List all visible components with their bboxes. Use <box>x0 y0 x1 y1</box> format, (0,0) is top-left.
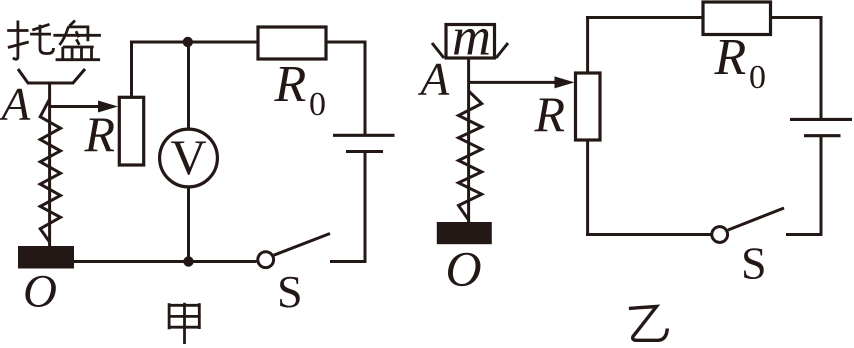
svg-text:V: V <box>170 129 206 185</box>
spring (甲) <box>40 99 60 242</box>
svg-text:0: 0 <box>749 59 766 96</box>
wire junction to voltmeter (甲) <box>187 42 190 128</box>
spring (乙) <box>459 91 482 220</box>
resistor R0 (乙) <box>703 2 771 35</box>
label 盘 (tray text, char 2) <box>53 21 101 60</box>
resistor R0 (甲) <box>258 27 326 59</box>
label 乙 (caption) <box>629 307 667 341</box>
wire rheostat top to top rail (甲) <box>130 42 133 97</box>
mass m tray slashes (乙) <box>432 43 444 58</box>
svg-text:O: O <box>446 241 482 297</box>
rheostat R (甲) <box>119 97 143 165</box>
battery long plate (乙) <box>790 118 852 121</box>
bottom wire base to switch (甲) <box>74 260 257 263</box>
switch S lever (乙) <box>728 208 784 230</box>
wire battery to switch stub (甲) <box>330 152 365 262</box>
mass m box (乙) <box>446 25 495 59</box>
svg-text:R: R <box>84 106 116 162</box>
fixed base O (甲) <box>18 246 74 269</box>
rod wire from tray to base (甲) <box>48 83 51 246</box>
fixed base O (乙) <box>437 222 492 244</box>
wire rheostat top to top rail (乙) <box>586 18 589 74</box>
top wire (甲) <box>130 41 258 44</box>
svg-text:A: A <box>418 54 450 106</box>
slider arrow wire (甲) <box>50 105 101 108</box>
rheostat R (乙) <box>576 73 601 140</box>
svg-text:O: O <box>23 266 57 318</box>
rod wire from mass to base (乙) <box>467 58 470 222</box>
wire R0 to right corner (甲) <box>326 42 365 134</box>
svg-text:A: A <box>0 79 31 131</box>
wire rheostat bottom to bottom rail (乙) <box>586 140 589 235</box>
slider arrowhead (乙) <box>555 76 575 88</box>
bottom wire to switch (乙) <box>586 233 711 236</box>
slider arrow wire (乙) <box>469 81 557 84</box>
battery short plate (甲) <box>346 150 383 153</box>
switch S pivot circle (甲) <box>258 252 274 268</box>
svg-text:R: R <box>534 86 566 142</box>
svg-text:R: R <box>714 29 747 86</box>
svg-text:S: S <box>277 266 303 317</box>
svg-text:m: m <box>452 7 491 67</box>
voltmeter U1 circle (甲) <box>160 129 218 187</box>
wire R0 to right corner (乙) <box>771 18 822 119</box>
label 托 (tray text, char 1) <box>7 21 53 60</box>
tray (circuit 甲) <box>18 69 85 83</box>
battery short plate (乙) <box>804 134 841 137</box>
battery long plate (甲) <box>333 134 395 137</box>
svg-text:R: R <box>274 56 307 113</box>
slider arrowhead (甲) <box>98 101 118 113</box>
switch S pivot circle (乙) <box>712 227 728 243</box>
svg-text:S: S <box>741 238 767 289</box>
label 甲 (caption) <box>168 303 201 344</box>
junction node top (甲) <box>183 37 193 47</box>
junction node bottom (甲) <box>183 256 193 266</box>
switch S lever (甲) <box>274 234 330 256</box>
svg-text:0: 0 <box>309 86 326 123</box>
wire voltmeter to bottom rail (甲) <box>187 188 190 262</box>
top wire (乙) <box>586 16 703 19</box>
wire battery to switch stub (乙) <box>786 136 821 235</box>
